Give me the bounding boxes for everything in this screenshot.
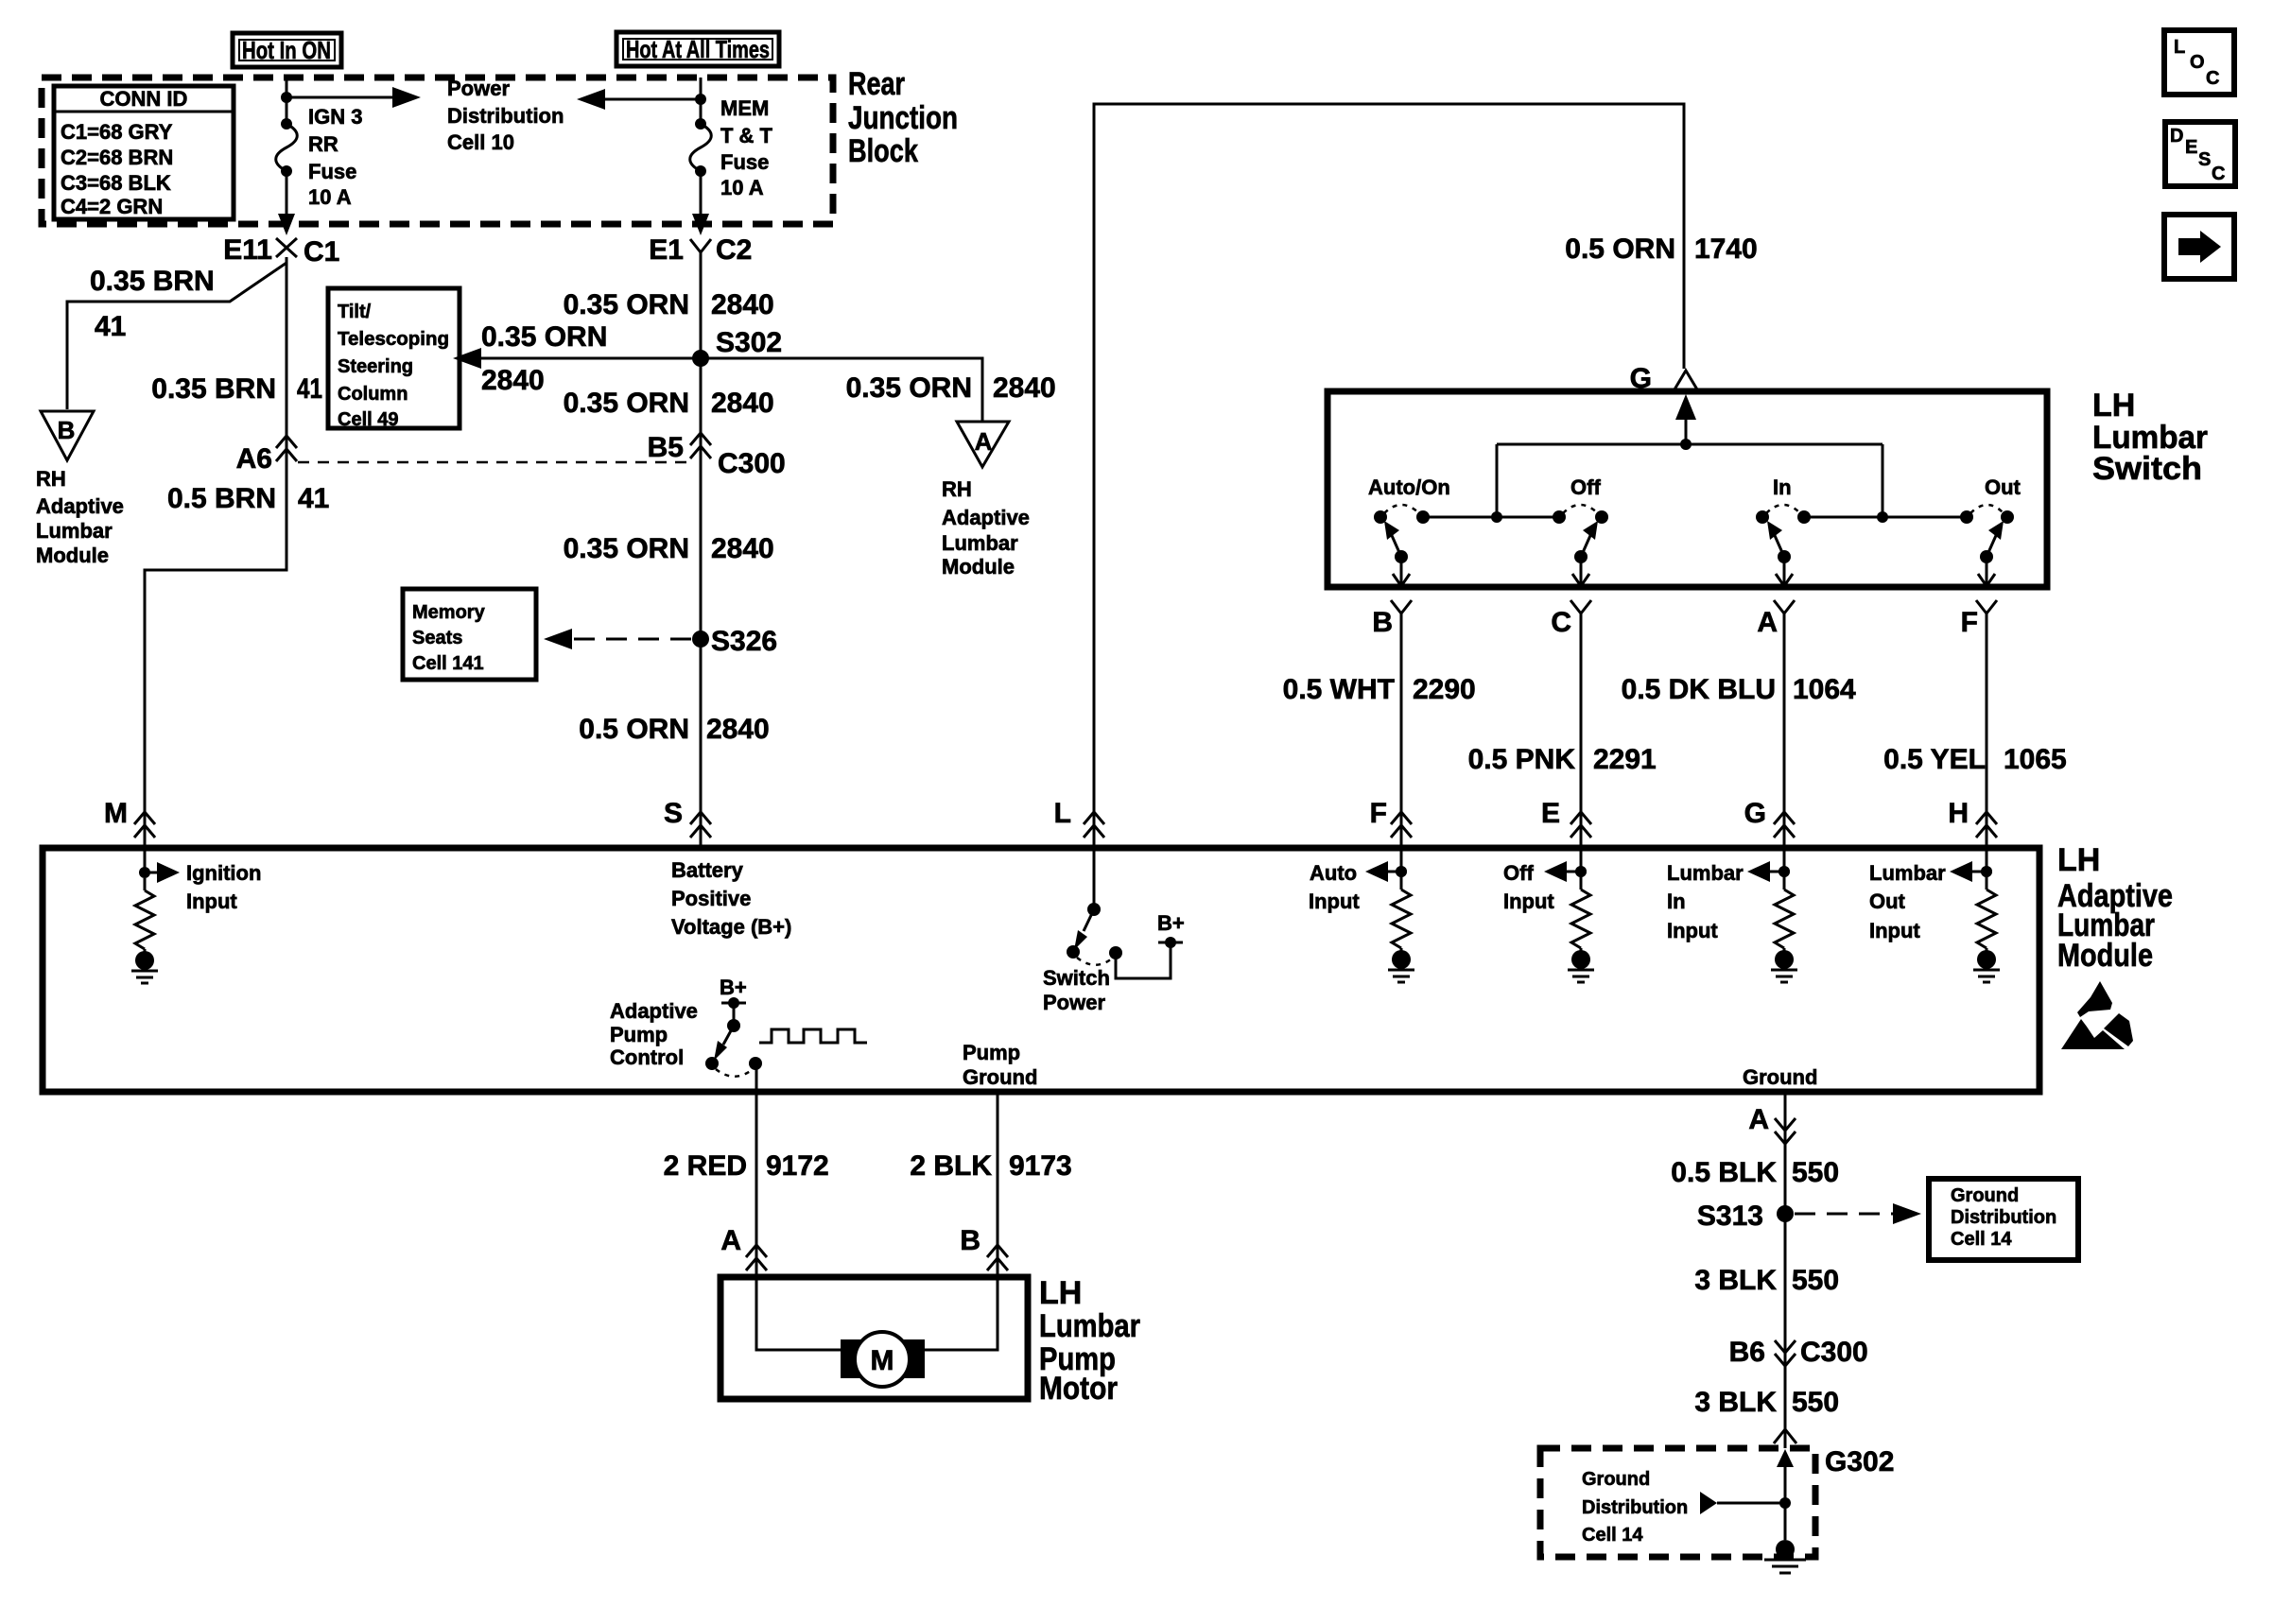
box: Hot At All Times bbox=[616, 32, 779, 66]
svg-text:D: D bbox=[2170, 126, 2183, 147]
label: Power Distribution Cell 10 bbox=[447, 77, 564, 154]
svg-text:Input: Input bbox=[1869, 919, 1920, 942]
svg-text:2840: 2840 bbox=[711, 388, 774, 419]
svg-text:C2=68 BRN: C2=68 BRN bbox=[61, 146, 173, 169]
svg-text:Positive: Positive bbox=[671, 887, 751, 910]
node: junction at IGN3 bbox=[281, 92, 292, 103]
wire: IGN3 feed from Hot In ON bbox=[286, 78, 288, 124]
svg-text:Distribution: Distribution bbox=[447, 104, 564, 128]
svg-text:B+: B+ bbox=[1157, 911, 1185, 935]
connector: switch pin C bbox=[1551, 600, 1591, 638]
connector: switch pin B bbox=[1372, 600, 1412, 638]
connector: switch pin A bbox=[1757, 600, 1795, 638]
svg-text:L: L bbox=[1054, 798, 1071, 829]
svg-text:Tilt/: Tilt/ bbox=[338, 302, 372, 322]
svg-text:S: S bbox=[2198, 149, 2211, 170]
svg-text:2840: 2840 bbox=[711, 533, 774, 564]
svg-text:Lumbar: Lumbar bbox=[1869, 861, 1946, 885]
svg-text:2840: 2840 bbox=[481, 365, 545, 396]
svg-text:Fuse: Fuse bbox=[308, 160, 356, 183]
svg-text:Module: Module bbox=[36, 544, 109, 567]
svg-text:Lumbar: Lumbar bbox=[942, 531, 1018, 555]
module internal: PWM waveform bbox=[759, 1029, 867, 1043]
svg-text:RH: RH bbox=[942, 477, 972, 501]
svg-text:Distribution: Distribution bbox=[1582, 1497, 1688, 1518]
svg-text:Adaptive: Adaptive bbox=[942, 506, 1030, 529]
svg-text:F: F bbox=[1370, 798, 1387, 829]
svg-text:0.5 ORN: 0.5 ORN bbox=[1565, 233, 1675, 265]
box: LOC bbox=[2164, 30, 2234, 95]
splice: S326 bbox=[692, 631, 709, 648]
svg-text:Auto: Auto bbox=[1310, 861, 1357, 885]
svg-text:Block: Block bbox=[848, 133, 918, 169]
svg-text:Input: Input bbox=[1667, 919, 1718, 942]
svg-text:T & T: T & T bbox=[720, 124, 773, 147]
module internal: Pump Ground label bbox=[963, 1041, 1037, 1089]
svg-text:Motor: Motor bbox=[1039, 1371, 1118, 1407]
svg-text:0.5 DK BLU: 0.5 DK BLU bbox=[1622, 674, 1776, 705]
svg-text:B: B bbox=[1372, 607, 1393, 638]
svg-text:G: G bbox=[1744, 798, 1766, 829]
svg-text:M: M bbox=[871, 1345, 894, 1376]
svg-text:0.5 BLK: 0.5 BLK bbox=[1671, 1157, 1777, 1188]
svg-text:Junction: Junction bbox=[848, 100, 958, 136]
svg-text:C: C bbox=[2206, 68, 2219, 89]
wire: dashed C300 link A6-B5 bbox=[298, 461, 689, 464]
box: LH Lumbar Switch bbox=[1327, 391, 2047, 587]
svg-text:550: 550 bbox=[1792, 1157, 1839, 1188]
wire: arrow to Power Distribution bbox=[286, 87, 421, 108]
svg-text:550: 550 bbox=[1792, 1265, 1839, 1296]
svg-text:9172: 9172 bbox=[766, 1150, 829, 1182]
svg-text:Cell 14: Cell 14 bbox=[1951, 1229, 2012, 1250]
wire: MEM fuse output down with arrowhead bbox=[692, 171, 709, 235]
svg-text:41: 41 bbox=[95, 311, 126, 342]
wire: A to module G bbox=[1783, 631, 1786, 848]
svg-text:Cell 14: Cell 14 bbox=[1582, 1525, 1643, 1546]
svg-text:C4=2 GRN: C4=2 GRN bbox=[61, 195, 163, 218]
svg-text:Voltage (B+): Voltage (B+) bbox=[671, 915, 791, 939]
module internal: Off Input bbox=[1503, 851, 1594, 982]
connector: C300 pin B6 bbox=[1729, 1337, 1868, 1368]
svg-text:E11: E11 bbox=[223, 234, 272, 266]
svg-text:E: E bbox=[1541, 798, 1560, 829]
wire: B to module F bbox=[1400, 631, 1403, 848]
svg-text:1065: 1065 bbox=[2004, 744, 2067, 775]
box: Hot In ON bbox=[233, 33, 341, 67]
box: LH Adaptive Lumbar Module bbox=[43, 848, 2039, 1092]
svg-text:MEM: MEM bbox=[720, 96, 769, 120]
box: next-page arrow bbox=[2164, 215, 2234, 279]
wire: arrow to Power Distribution (left) bbox=[577, 89, 701, 110]
svg-text:Module: Module bbox=[2057, 938, 2153, 974]
svg-text:C3=68 BLK: C3=68 BLK bbox=[61, 171, 171, 195]
svg-text:Rear: Rear bbox=[848, 66, 905, 102]
svg-text:0.35 ORN: 0.35 ORN bbox=[481, 321, 607, 353]
svg-text:Ground: Ground bbox=[1743, 1065, 1817, 1089]
svg-text:M: M bbox=[104, 798, 128, 829]
wire: MEM feed from Hot At All Times bbox=[700, 78, 703, 124]
svg-text:0.5 YEL: 0.5 YEL bbox=[1883, 744, 1986, 775]
svg-text:A: A bbox=[975, 427, 993, 456]
svg-text:RH: RH bbox=[36, 467, 66, 491]
svg-text:2 RED: 2 RED bbox=[664, 1150, 747, 1182]
svg-text:O: O bbox=[2190, 52, 2205, 73]
svg-text:Switch: Switch bbox=[1043, 966, 1110, 990]
svg-text:C300: C300 bbox=[718, 448, 786, 479]
connector: C300 pin A6 bbox=[236, 436, 297, 475]
svg-text:Switch: Switch bbox=[2092, 451, 2202, 487]
svg-text:B: B bbox=[960, 1225, 980, 1256]
connector: E11 x C1 bbox=[223, 234, 339, 268]
table: CONN ID bbox=[54, 86, 234, 219]
svg-text:0.35 BRN: 0.35 BRN bbox=[151, 373, 276, 405]
svg-text:CONN ID: CONN ID bbox=[100, 87, 188, 111]
svg-text:Power: Power bbox=[1043, 991, 1105, 1014]
svg-text:G302: G302 bbox=[1825, 1446, 1894, 1477]
motor M1: LH lumbar pump motor bbox=[841, 1332, 925, 1387]
svg-text:Ground: Ground bbox=[1582, 1469, 1650, 1490]
wire: ground distribution branch arrow bbox=[1700, 1492, 1785, 1514]
svg-text:LH: LH bbox=[2092, 388, 2135, 423]
connector: switch pin G bbox=[1630, 363, 1697, 394]
svg-text:A: A bbox=[1748, 1104, 1769, 1135]
wire: motor B lead bbox=[925, 1271, 998, 1350]
svg-text:2840: 2840 bbox=[711, 289, 774, 320]
svg-text:0.35 BRN: 0.35 BRN bbox=[90, 266, 215, 297]
wire: pump ground to motor B bbox=[997, 1092, 999, 1277]
connector: switch pin F bbox=[1961, 600, 1997, 638]
label: Rear Junction Block bbox=[848, 66, 958, 169]
svg-text:S326: S326 bbox=[711, 626, 777, 657]
svg-text:Fuse: Fuse bbox=[720, 150, 769, 174]
box: Tilt/Telescoping Steering Column Cell 49 bbox=[328, 288, 460, 430]
svg-text:0.5 PNK: 0.5 PNK bbox=[1468, 744, 1576, 775]
svg-text:S313: S313 bbox=[1697, 1201, 1763, 1232]
svg-text:C1=68 GRY: C1=68 GRY bbox=[61, 120, 173, 144]
switch: In bbox=[1756, 475, 1967, 586]
svg-text:H: H bbox=[1948, 798, 1969, 829]
svg-text:Distribution: Distribution bbox=[1951, 1207, 2056, 1228]
svg-text:C2: C2 bbox=[716, 234, 752, 266]
connector: module pin M bbox=[104, 798, 155, 838]
svg-text:0.35 ORN: 0.35 ORN bbox=[564, 289, 689, 320]
symbol: ESD sensitive device bbox=[2061, 981, 2133, 1049]
switch: Out bbox=[1960, 475, 2021, 586]
svg-text:Cell 49: Cell 49 bbox=[338, 409, 398, 430]
svg-text:Ground: Ground bbox=[963, 1065, 1037, 1089]
svg-text:Input: Input bbox=[186, 890, 237, 913]
wire: F to module H bbox=[1986, 631, 1988, 848]
label: Ground Distribution Cell 14 (G302) bbox=[1582, 1469, 1688, 1546]
svg-text:E1: E1 bbox=[649, 234, 684, 266]
wire: adaptive pump control to motor A bbox=[755, 1063, 758, 1277]
svg-text:L: L bbox=[2174, 37, 2185, 58]
switch: Off bbox=[1553, 475, 1608, 586]
wire: motor A lead bbox=[756, 1271, 841, 1350]
connector: module pin E bbox=[1541, 798, 1591, 838]
wire: switch internal bus with up arrow bbox=[1497, 394, 1883, 517]
svg-text:A6: A6 bbox=[236, 443, 272, 475]
connector: module pin S bbox=[664, 798, 711, 838]
fuse: IGN 3 RR Fuse 10 A bbox=[276, 118, 298, 177]
switch: Auto/On bbox=[1368, 475, 1559, 586]
module internal: Ignition Input bbox=[131, 851, 261, 983]
svg-text:Telescoping: Telescoping bbox=[338, 329, 449, 350]
svg-text:Ground: Ground bbox=[1951, 1185, 2019, 1206]
svg-text:0.5 WHT: 0.5 WHT bbox=[1283, 674, 1395, 705]
svg-text:Adaptive: Adaptive bbox=[36, 494, 124, 518]
svg-text:Pump: Pump bbox=[963, 1041, 1020, 1064]
svg-text:0.5 BRN: 0.5 BRN bbox=[167, 483, 276, 514]
svg-text:41: 41 bbox=[298, 483, 329, 514]
label: LH Adaptive Lumbar Module bbox=[2057, 842, 2173, 974]
wire: fuse output down with arrowhead bbox=[278, 171, 295, 235]
connector: module pin F bbox=[1370, 798, 1412, 838]
svg-text:Column: Column bbox=[338, 384, 408, 405]
wire: C1 branch to B triangle bbox=[67, 263, 286, 409]
box: LH Lumbar Pump Motor bbox=[720, 1277, 1028, 1399]
svg-text:F: F bbox=[1961, 607, 1978, 638]
svg-text:Lumbar: Lumbar bbox=[36, 519, 113, 543]
dashed box: Rear Junction Block bbox=[42, 78, 833, 224]
fuse: MEM T&T Fuse 10 A bbox=[690, 118, 712, 177]
svg-text:A: A bbox=[1757, 607, 1778, 638]
svg-text:Module: Module bbox=[942, 555, 1015, 579]
svg-text:S302: S302 bbox=[716, 327, 782, 358]
splice: S302 bbox=[692, 350, 709, 367]
connector: into G302 bbox=[1774, 1429, 1796, 1443]
svg-text:Off: Off bbox=[1503, 861, 1534, 885]
svg-text:S: S bbox=[664, 798, 683, 829]
svg-text:C: C bbox=[1551, 607, 1571, 638]
box: DESC bbox=[2165, 122, 2235, 186]
svg-text:In: In bbox=[1773, 475, 1792, 499]
svg-text:1740: 1740 bbox=[1694, 233, 1758, 265]
node: junction at MEM bbox=[695, 94, 706, 105]
svg-text:Lumbar: Lumbar bbox=[1039, 1308, 1140, 1344]
svg-text:Out: Out bbox=[1869, 890, 1906, 913]
svg-text:In: In bbox=[1667, 890, 1686, 913]
wire: C to module E bbox=[1580, 631, 1583, 848]
wire: S302 right branch to A triangle bbox=[701, 358, 982, 422]
wire: dashed arrow to Ground Distribution bbox=[1795, 1203, 1921, 1224]
svg-text:LH: LH bbox=[1039, 1275, 1082, 1311]
svg-text:C: C bbox=[2212, 164, 2225, 184]
ground: G302 earth symbol bbox=[1764, 1540, 1806, 1573]
svg-text:A: A bbox=[720, 1225, 741, 1256]
wire: circuit 2840 main column bbox=[700, 266, 703, 848]
svg-text:B5: B5 bbox=[648, 432, 684, 463]
svg-text:C300: C300 bbox=[1800, 1337, 1868, 1368]
svg-text:Cell 10: Cell 10 bbox=[447, 130, 514, 154]
label: RH Adaptive Lumbar Module (left) bbox=[36, 467, 124, 567]
svg-text:Adaptive: Adaptive bbox=[610, 999, 698, 1023]
svg-text:B+: B+ bbox=[720, 976, 747, 999]
wire: module L up and over to switch G bbox=[1094, 104, 1684, 848]
connector: module pin L bbox=[1054, 798, 1104, 838]
label: LH Lumbar Pump Motor bbox=[1039, 1275, 1140, 1407]
wire: module ground output bbox=[1784, 1092, 1787, 1448]
svg-text:1064: 1064 bbox=[1793, 674, 1856, 705]
module internal: Auto Input bbox=[1309, 851, 1414, 982]
connector: motor pin B bbox=[960, 1225, 1008, 1270]
svg-text:Hot In ON: Hot In ON bbox=[242, 36, 331, 64]
svg-text:3 BLK: 3 BLK bbox=[1694, 1265, 1777, 1296]
box: Ground Distribution Cell 14 (right) bbox=[1929, 1179, 2078, 1260]
dashed box: G302 bbox=[1540, 1448, 1815, 1557]
svg-text:Lumbar: Lumbar bbox=[1667, 861, 1744, 885]
wire: S302 arrow to Tilt/Telescoping bbox=[453, 348, 701, 369]
svg-text:41: 41 bbox=[297, 373, 322, 405]
label: RH Adaptive Lumbar Module (right) bbox=[942, 477, 1030, 579]
svg-text:2291: 2291 bbox=[1593, 744, 1657, 775]
module internal: Switch Power bbox=[1043, 851, 1185, 1014]
svg-text:B: B bbox=[58, 416, 76, 444]
svg-text:550: 550 bbox=[1792, 1387, 1839, 1418]
svg-text:Power: Power bbox=[447, 77, 510, 100]
wire: C1 main down to module M bbox=[145, 257, 286, 848]
svg-text:Pump: Pump bbox=[610, 1023, 668, 1046]
svg-text:10 A: 10 A bbox=[720, 176, 764, 199]
connector: motor pin A bbox=[720, 1225, 767, 1270]
svg-text:C1: C1 bbox=[304, 236, 339, 268]
svg-text:Seats: Seats bbox=[412, 628, 462, 648]
svg-text:Battery: Battery bbox=[671, 858, 744, 882]
module internal: Lumbar In Input bbox=[1667, 851, 1797, 982]
svg-text:RR: RR bbox=[308, 132, 338, 156]
svg-text:B6: B6 bbox=[1729, 1337, 1765, 1368]
wire: G302 ground lead with entry arrow bbox=[1777, 1449, 1794, 1540]
svg-text:2840: 2840 bbox=[993, 372, 1056, 404]
connector: ground pin A bbox=[1748, 1104, 1796, 1144]
svg-text:3 BLK: 3 BLK bbox=[1694, 1387, 1777, 1418]
svg-text:Off: Off bbox=[1570, 475, 1601, 499]
svg-text:E: E bbox=[2185, 137, 2197, 158]
module internal: Adaptive Pump Control bbox=[610, 976, 762, 1077]
svg-text:Control: Control bbox=[610, 1045, 684, 1069]
svg-text:Hot At All Times: Hot At All Times bbox=[626, 35, 770, 63]
svg-text:2 BLK: 2 BLK bbox=[910, 1150, 992, 1182]
svg-text:IGN 3: IGN 3 bbox=[308, 105, 362, 129]
connector: E1 Y C2 bbox=[649, 234, 752, 270]
module internal: Lumbar Out Input bbox=[1869, 851, 2000, 982]
off-page connector: B to RH Adaptive Lumbar Module bbox=[41, 411, 94, 460]
label: LH Lumbar Switch bbox=[2092, 388, 2208, 487]
svg-text:Memory: Memory bbox=[412, 602, 486, 623]
svg-text:Steering: Steering bbox=[338, 356, 413, 377]
node: G302 branch junction bbox=[1779, 1497, 1791, 1509]
connector: module pin H bbox=[1948, 798, 1997, 838]
svg-text:Input: Input bbox=[1309, 890, 1360, 913]
svg-text:Out: Out bbox=[1985, 475, 2021, 499]
svg-text:10 A: 10 A bbox=[308, 185, 352, 209]
svg-text:0.5 ORN: 0.5 ORN bbox=[579, 714, 689, 745]
svg-text:LH: LH bbox=[2057, 842, 2100, 878]
svg-text:0.35 ORN: 0.35 ORN bbox=[846, 372, 972, 404]
wire: dashed arrow to Memory Seats bbox=[544, 629, 691, 649]
svg-text:0.35 ORN: 0.35 ORN bbox=[564, 388, 689, 419]
module internal: Battery Positive Voltage label bbox=[671, 858, 791, 939]
svg-text:2290: 2290 bbox=[1413, 674, 1476, 705]
box: Memory Seats Cell 141 bbox=[403, 589, 536, 680]
svg-text:Auto/On: Auto/On bbox=[1368, 475, 1450, 499]
svg-text:Cell 141: Cell 141 bbox=[412, 653, 484, 674]
svg-text:9173: 9173 bbox=[1009, 1150, 1072, 1182]
off-page connector: A to RH Adaptive Lumbar Module bbox=[957, 422, 1009, 467]
svg-text:Ignition: Ignition bbox=[186, 861, 261, 885]
svg-text:2840: 2840 bbox=[706, 714, 770, 745]
connector: module pin G bbox=[1744, 798, 1795, 838]
svg-text:0.35 ORN: 0.35 ORN bbox=[564, 533, 689, 564]
splice: S313 bbox=[1777, 1205, 1794, 1222]
svg-text:Input: Input bbox=[1503, 890, 1554, 913]
connector: C300 pin B5 bbox=[648, 432, 786, 479]
